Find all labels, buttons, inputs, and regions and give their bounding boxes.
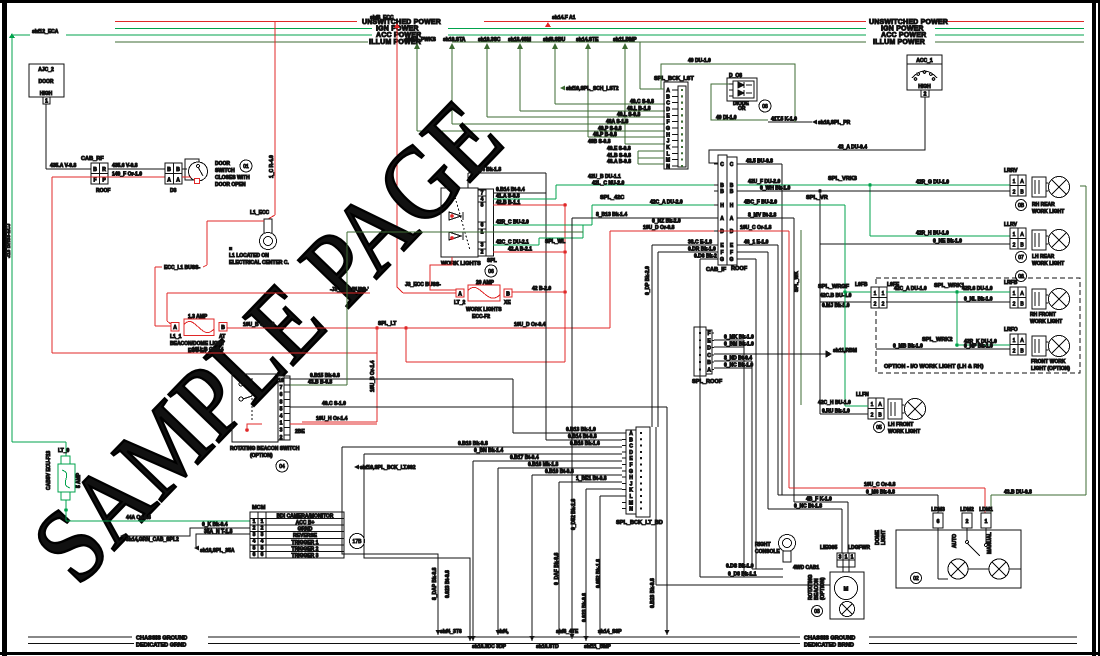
svg-text:F: F xyxy=(707,331,710,337)
svg-text:6: 6 xyxy=(253,552,256,558)
wire 0_K Bk-0.4 xyxy=(125,528,250,536)
svg-text:shf11_BMP: shf11_BMP xyxy=(584,644,611,650)
svg-text:49 DU-1.0: 49 DU-1.0 xyxy=(688,58,711,64)
svg-text:MANUAL: MANUAL xyxy=(987,532,993,554)
wire pin G right xyxy=(737,258,756,260)
svg-text:0.B17 Bt-0.4: 0.B17 Bt-0.4 xyxy=(510,455,539,461)
wire sh11,RBM xyxy=(714,353,826,355)
svg-text:B: B xyxy=(707,360,711,366)
wire 0_NL Bk-1.0 xyxy=(886,301,1010,303)
svg-text:5: 5 xyxy=(280,406,283,412)
wire pin4 41.A S-0.8 (green) xyxy=(493,198,556,200)
ground arrow x=586 xyxy=(584,636,589,641)
node shf8_ECC xyxy=(370,15,400,28)
svg-text:C: C xyxy=(730,162,734,168)
fuse LT_0 CAB5V 5 AMP (green) xyxy=(12,442,82,521)
svg-text:0_NP Bk-1.0: 0_NP Bk-1.0 xyxy=(964,344,993,350)
svg-text:RH FRONT: RH FRONT xyxy=(1030,312,1056,318)
svg-text:48A S-1.8: 48A S-1.8 xyxy=(606,119,629,125)
svg-text:4BC_F BU-2.0: 4BC_F BU-2.0 xyxy=(744,200,777,206)
svg-text:435.A V-0.8: 435.A V-0.8 xyxy=(50,163,76,169)
wire 42R_K DU-1.0 (green) xyxy=(957,344,1010,346)
svg-text:0_WH Bk-1.0: 0_WH Bk-1.0 xyxy=(760,186,791,192)
svg-text:08: 08 xyxy=(762,104,768,110)
svg-text:4: 4 xyxy=(253,539,256,545)
svg-text:shf12_ECA: shf12_ECA xyxy=(32,29,59,35)
wire green SPL_42C to CAB_IF xyxy=(556,184,718,186)
svg-text:C: C xyxy=(666,101,670,107)
terminal RIGHT CONSOLE 4WD CAB1 xyxy=(755,535,819,572)
svg-text:N: N xyxy=(629,507,633,513)
wire long vertical 0_D52 xyxy=(571,218,573,639)
svg-text:TRIGGER 2: TRIGGER 2 xyxy=(292,546,319,552)
wire pin2 42.A B-2.1 (red) xyxy=(493,251,565,253)
wire 0.B15 Bk-0.8 xyxy=(290,378,513,380)
svg-text:CHASSIS GROUND: CHASSIS GROUND xyxy=(136,636,187,642)
svg-text:2: 2 xyxy=(1013,190,1016,196)
svg-text:42R_G DU-1.0: 42R_G DU-1.0 xyxy=(916,180,949,186)
wire 0_NC Bk-1.0 xyxy=(714,367,752,369)
wire 43.5 BU-0.8 xyxy=(737,163,782,165)
svg-text:2: 2 xyxy=(924,92,927,98)
svg-text:shf10,SPL_SCH_LST2: shf10,SPL_SCH_LST2 xyxy=(566,86,619,92)
svg-text:43.B B-0.8: 43.B B-0.8 xyxy=(308,380,332,386)
svg-text:0_D52 Bk-1.8: 0_D52 Bk-1.8 xyxy=(571,499,577,530)
svg-text:0.052 Bk-1.8: 0.052 Bk-1.8 xyxy=(596,559,602,588)
svg-text:1: 1 xyxy=(1013,232,1016,238)
svg-text:H: H xyxy=(629,475,633,481)
svg-text:sh10.STA: sh10.STA xyxy=(443,37,466,43)
svg-text:41T.5 K-1.0: 41T.5 K-1.0 xyxy=(771,117,797,123)
wire 0.B16 Mk-1.8 xyxy=(498,467,622,469)
svg-text:ELECTRICAL CENTER C.: ELECTRICAL CENTER C. xyxy=(229,260,290,266)
svg-text:-J3_ECC BUSS-': -J3_ECC BUSS-' xyxy=(330,287,369,293)
svg-text:42R.6 DU-1.0: 42R.6 DU-1.0 xyxy=(962,286,993,292)
svg-text:2BE: 2BE xyxy=(295,429,305,435)
svg-text:3: 3 xyxy=(481,243,484,249)
svg-text:LIGHT (OPTION): LIGHT (OPTION) xyxy=(1031,366,1070,372)
svg-text:OR: OR xyxy=(738,106,746,112)
svg-text:0_MK Bk-1.0: 0_MK Bk-1.0 xyxy=(724,335,754,341)
svg-text:sh10.3SC: sh10.3SC xyxy=(478,37,501,43)
svg-text:L1_ECC: L1_ECC xyxy=(250,210,270,216)
wire AJC_2 to CAB_RF xyxy=(45,104,47,169)
wire black 8_B13 Bk-1.4 xyxy=(572,217,718,219)
svg-text:G: G xyxy=(629,469,633,475)
svg-text:38.C E-1.8: 38.C E-1.8 xyxy=(688,240,712,246)
svg-text:L0FB: L0FB xyxy=(855,282,868,288)
svg-text:0_MB Bk-1.0: 0_MB Bk-1.0 xyxy=(893,344,923,350)
wire illum drop sh10.STA xyxy=(443,37,665,124)
svg-text:D: D xyxy=(730,229,734,235)
svg-text:06: 06 xyxy=(488,269,494,275)
wire 0_WH Bk-1.0 / SPL_VR xyxy=(737,190,1010,192)
wire illum drop shf8.SBU xyxy=(543,37,665,104)
connector LRFO + lamp FRONT WORK LIGHT (OPTION) xyxy=(1004,327,1070,372)
component WORK LIGHTS xyxy=(441,188,497,277)
svg-text:MCM: MCM xyxy=(252,505,266,511)
wire pin F right xyxy=(737,251,768,253)
wire illum drop sh11.BMP xyxy=(613,37,665,144)
connector L0FB/L0FE xyxy=(855,282,900,308)
svg-text:SPL_BCK_LST: SPL_BCK_LST xyxy=(654,76,694,82)
node shf12_ECA xyxy=(9,29,59,38)
svg-text:2: 2 xyxy=(481,250,484,256)
svg-text:0.D6 Bk-2: 0.D6 Bk-2 xyxy=(694,254,717,260)
svg-text:CAB_IF: CAB_IF xyxy=(706,267,727,273)
svg-text:4: 4 xyxy=(280,414,283,420)
svg-text:42 B-2.0: 42 B-2.0 xyxy=(532,286,551,292)
svg-text:5: 5 xyxy=(261,545,264,551)
wire 0.B13 Bk-1.0 xyxy=(513,432,622,434)
wire pin K xyxy=(586,488,622,490)
svg-text:8_DAP Bk-0.8: 8_DAP Bk-0.8 xyxy=(432,567,438,600)
svg-text:REVERSE: REVERSE xyxy=(293,533,318,539)
svg-text:2: 2 xyxy=(874,302,877,308)
svg-text:48.A B-0.8: 48.A B-0.8 xyxy=(607,159,631,165)
svg-text:L: L xyxy=(629,494,632,500)
wire 49 DU-1.0 (dark green) xyxy=(661,64,795,120)
svg-text:46_1 E-1.0: 46_1 E-1.0 xyxy=(744,240,769,246)
svg-text:AT: AT xyxy=(219,334,225,340)
svg-text:F: F xyxy=(720,250,723,256)
component ACC_1 HIGH xyxy=(907,55,942,98)
ref 01 xyxy=(240,160,252,172)
connector SPL_ROOF xyxy=(692,327,723,385)
svg-text:LDGFWR: LDGFWR xyxy=(848,545,870,551)
svg-text:10U_B Or-1.0: 10U_B Or-1.0 xyxy=(243,322,275,328)
svg-text:5: 5 xyxy=(481,203,484,209)
ground arrow x=559 xyxy=(557,630,562,635)
svg-text:■: ■ xyxy=(229,246,232,252)
connector LLRV + lamp LH REAR WORK LIGHT xyxy=(1004,222,1070,267)
svg-text:FRONT WORK: FRONT WORK xyxy=(1031,359,1066,365)
wire 4B_F K-1.0 xyxy=(794,501,848,503)
svg-text:2: 2 xyxy=(261,526,264,532)
svg-text:B: B xyxy=(93,167,97,173)
wire red to CAB_IF pin D xyxy=(609,231,611,328)
svg-text:1: 1 xyxy=(871,402,874,408)
fuse LT_2 20 AMP WORK LIGHTS ECC-F2 xyxy=(397,280,512,320)
svg-text:LLRV: LLRV xyxy=(1004,222,1018,228)
svg-text:6: 6 xyxy=(280,392,283,398)
svg-text:35A_N T-1.8: 35A_N T-1.8 xyxy=(204,529,233,535)
svg-text:41.A S-0.8: 41.A S-0.8 xyxy=(496,194,520,200)
svg-text:ACC POWER: ACC POWER xyxy=(881,32,926,39)
wire 40.C S-1.0 long xyxy=(290,406,667,408)
svg-text:B: B xyxy=(629,437,633,443)
wire 140_F Or-1.0 (red) xyxy=(52,176,165,178)
svg-text:RIGHT: RIGHT xyxy=(755,542,771,548)
svg-text:AJC_2: AJC_2 xyxy=(38,67,54,73)
wire 0_MK Bk-1.0 xyxy=(714,339,744,341)
wire red 10U_B Or-0.4 xyxy=(52,352,377,354)
ground rail CHASSIS GROUND xyxy=(28,636,1077,638)
svg-text:WORK LIGHT: WORK LIGHT xyxy=(1032,209,1064,215)
svg-text:LRFO: LRFO xyxy=(1004,327,1018,333)
rail labels right xyxy=(869,19,948,46)
svg-text:J: J xyxy=(630,481,633,487)
svg-text:0.B15 Bk-0.8: 0.B15 Bk-0.8 xyxy=(310,373,340,379)
wire illum drop sh10.3SC xyxy=(478,37,665,117)
svg-text:HIGH: HIGH xyxy=(918,84,931,90)
component ROTATING BEACON SWITCH (OPTION) xyxy=(230,374,305,472)
svg-text:ECC-E4: ECC-E4 xyxy=(188,348,207,354)
svg-text:10U_C Or-1.8: 10U_C Or-1.8 xyxy=(740,225,772,231)
svg-text:0_D8 Bk-1.1: 0_D8 Bk-1.1 xyxy=(728,572,757,578)
svg-text:6: 6 xyxy=(261,552,264,558)
svg-text:2: 2 xyxy=(871,413,874,419)
svg-text:A: A xyxy=(167,178,171,184)
svg-text:SPL_WRK1: SPL_WRK1 xyxy=(934,283,964,289)
svg-text:ROOF: ROOF xyxy=(96,188,110,194)
svg-text:A: A xyxy=(720,216,724,222)
wire red bus J3 horizontal xyxy=(167,292,370,294)
svg-text:0_DP Bk-2.0: 0_DP Bk-2.0 xyxy=(645,266,651,295)
wire 42C_A DU-1.0 / 42R.6 DU-1.0 (green) xyxy=(886,291,1010,293)
wire illum drop shf12_PWKS xyxy=(405,37,665,131)
svg-text:3: 3 xyxy=(839,555,842,561)
svg-text:1: 1 xyxy=(845,555,848,561)
wire 0_NP Bk-1.0 / 0_MB Bk-1.0 xyxy=(876,348,1010,350)
svg-text:07: 07 xyxy=(1018,255,1024,261)
wire red to beacon switch xyxy=(302,328,377,422)
svg-text:49.L S-0.8: 49.L S-0.8 xyxy=(617,112,640,118)
svg-text:AUTO: AUTO xyxy=(952,534,958,548)
svg-text:5 AMP: 5 AMP xyxy=(76,472,82,488)
svg-text:49 DI-1.0: 49 DI-1.0 xyxy=(716,115,737,121)
svg-text:10U_H Or-1.4: 10U_H Or-1.4 xyxy=(316,416,348,422)
wire pin7 0_B14 Bt-0.4 xyxy=(493,192,546,194)
svg-text:LT_0: LT_0 xyxy=(58,448,70,454)
wire pin L xyxy=(600,495,622,497)
svg-text:SPL_WL: SPL_WL xyxy=(545,239,565,245)
svg-text:A: A xyxy=(458,292,462,298)
svg-text:8_ND Bt-0.4: 8_ND Bt-0.4 xyxy=(724,356,752,362)
svg-text:BDI CAMERA/MONITOR: BDI CAMERA/MONITOR xyxy=(277,514,334,520)
svg-text:HIGH: HIGH xyxy=(40,91,53,97)
svg-text:42C.B BU-1.0: 42C.B BU-1.0 xyxy=(820,293,852,299)
svg-text:(OPTION): (OPTION) xyxy=(250,453,273,459)
svg-text:06: 06 xyxy=(1018,274,1024,280)
component DOME LIGHT xyxy=(875,507,1021,588)
svg-text:10U_D Or-0.4: 10U_D Or-0.4 xyxy=(514,322,546,328)
svg-text:0.023 Bt-0.8: 0.023 Bt-0.8 xyxy=(445,570,451,598)
svg-text:42C_C DU-2.1: 42C_C DU-2.1 xyxy=(496,240,529,246)
svg-text:TRIGGER 3: TRIGGER 3 xyxy=(292,553,319,559)
svg-text:43_A DU-0.4: 43_A DU-0.4 xyxy=(838,145,867,151)
svg-text:17B: 17B xyxy=(353,539,363,545)
component ROTATING BEACON (OPTION) xyxy=(808,567,864,619)
svg-text:WORK LIGHT: WORK LIGHT xyxy=(888,429,920,435)
svg-text:M: M xyxy=(666,158,670,164)
svg-text:shf8_ECC: shf8_ECC xyxy=(370,15,394,21)
svg-text:DEDICATED GRND: DEDICATED GRND xyxy=(136,643,186,649)
svg-text:H: H xyxy=(720,203,724,209)
connector D3 xyxy=(165,163,182,194)
svg-text:0.B18 Bk-0.8: 0.B18 Bk-0.8 xyxy=(458,441,488,447)
svg-text:B: B xyxy=(730,189,734,195)
svg-text:42L_C NU-2.0: 42L_C NU-2.0 xyxy=(592,181,624,187)
svg-text:02: 02 xyxy=(913,576,919,582)
wire 44A Or-0.8 (green) xyxy=(66,520,250,522)
svg-text:SPL_LT: SPL_LT xyxy=(378,321,396,327)
svg-text:1: 1 xyxy=(253,519,256,525)
svg-text:0_B14 Bk-1.8: 0_B14 Bk-1.8 xyxy=(470,167,501,173)
svg-text:sh16,SPL_PR: sh16,SPL_PR xyxy=(818,120,851,126)
node shf10,SPL_BCK_LT_602 xyxy=(354,465,359,470)
svg-text:WORK LIGHTS: WORK LIGHTS xyxy=(441,261,481,267)
svg-text:shf4,: shf4, xyxy=(497,629,509,635)
svg-text:LIGHT: LIGHT xyxy=(881,530,887,545)
svg-text:8_B13 Bk-1.4: 8_B13 Bk-1.4 xyxy=(596,212,627,218)
wire 0_BM Bk-1.0 xyxy=(714,346,744,348)
svg-text:(OPTION): (OPTION) xyxy=(820,577,826,600)
svg-text:4B_F K-1.0: 4B_F K-1.0 xyxy=(806,497,832,503)
wire red beacon pin2 xyxy=(290,423,377,425)
svg-text:J: J xyxy=(667,139,670,145)
svg-text:WORK LIGHT: WORK LIGHT xyxy=(1030,319,1062,325)
wire 1_C R-4.0 (red riser) xyxy=(274,22,276,216)
svg-text:0_NL Bk-1.0: 0_NL Bk-1.0 xyxy=(964,297,993,303)
svg-text:1: 1 xyxy=(851,555,854,561)
connector CAB_IF ROOF xyxy=(706,155,748,273)
svg-text:05: 05 xyxy=(876,425,882,431)
component DIODE OR D_O8 xyxy=(727,73,771,112)
svg-text:1: 1 xyxy=(882,291,885,297)
wire 42U_F DU-2.0 / 42R_G DU-1.0 (green) xyxy=(737,184,1010,186)
svg-text:19U_D Or-0.8: 19U_D Or-0.8 xyxy=(643,225,675,231)
svg-text:CHASSIS GROUND: CHASSIS GROUND xyxy=(804,636,855,642)
power rail IGN POWER (green) xyxy=(115,28,1084,30)
svg-text:2: 2 xyxy=(1013,349,1016,355)
svg-text:C: C xyxy=(720,162,724,168)
wire 0.DS Bk-1.0 xyxy=(756,568,783,570)
wire right side riser xyxy=(655,427,657,585)
svg-text:F: F xyxy=(730,250,733,256)
svg-text:1: 1 xyxy=(1013,291,1016,297)
svg-text:WORK LIGHTS: WORK LIGHTS xyxy=(466,307,502,313)
wire red splice SPL_LT branch xyxy=(406,292,565,362)
wire 0_M6 Bk-0.8 xyxy=(778,494,938,496)
svg-text:K: K xyxy=(666,145,670,151)
svg-text:2: 2 xyxy=(882,302,885,308)
svg-text:01: 01 xyxy=(243,164,249,170)
svg-text:sh16.STD: sh16.STD xyxy=(536,644,559,650)
wire red left riser xyxy=(51,177,53,353)
svg-text:10U_B Or-1.4: 10U_B Or-1.4 xyxy=(370,360,376,392)
wire pin6 42R_C BU-2.0 (green) xyxy=(493,224,583,226)
svg-text:7: 7 xyxy=(280,385,283,391)
svg-text:0B: 0B xyxy=(1018,203,1025,209)
svg-text:42U_B DU-1.1: 42U_B DU-1.1 xyxy=(588,174,621,180)
ground arrow x=532 xyxy=(530,636,535,641)
svg-text:LRFB: LRFB xyxy=(1004,280,1018,286)
svg-text:6: 6 xyxy=(937,519,940,525)
svg-text:SPL_VRK3: SPL_VRK3 xyxy=(828,176,857,182)
wire 35A_N T-1.8 xyxy=(196,534,250,548)
wire 42C_H BU-1.0 (green) xyxy=(845,405,868,407)
svg-text:0_NC Bt-1.8: 0_NC Bt-1.8 xyxy=(794,504,822,510)
svg-text:sh14.F A1: sh14.F A1 xyxy=(552,15,576,21)
svg-text:0.B16 Bk-1.6: 0.B16 Bk-1.6 xyxy=(570,441,600,447)
ground arrow x=498 xyxy=(496,630,501,635)
svg-text:2: 2 xyxy=(280,435,283,441)
node sh14_F A1 xyxy=(545,15,576,27)
svg-text:42.A B-2.1: 42.A B-2.1 xyxy=(508,247,532,253)
svg-text:B: B xyxy=(666,94,670,100)
wire green 42C_A DU-2.0 xyxy=(592,204,718,206)
wire 49 DI-1.0 (dark green) xyxy=(711,84,768,120)
svg-text:44A Or-0.8: 44A Or-0.8 xyxy=(126,515,151,521)
svg-text:L1 LOCATED ON: L1 LOCATED ON xyxy=(229,253,269,259)
wire 43.B B-0.8 (dark green) xyxy=(290,384,347,386)
svg-text:ROOF: ROOF xyxy=(731,266,748,272)
svg-text:1: 1 xyxy=(280,421,283,427)
svg-text:DOOR OPEN: DOOR OPEN xyxy=(215,182,246,188)
connector MCM BDI CAMERA/MONITOR xyxy=(250,505,365,559)
svg-text:3: 3 xyxy=(280,428,283,434)
svg-text:0_BM Bk-1.0: 0_BM Bk-1.0 xyxy=(724,342,754,348)
svg-text:0.023 Bk-0.8: 0.023 Bk-0.8 xyxy=(582,593,588,622)
wire pin3 42C_C DU-2.1 (green) xyxy=(493,244,539,246)
svg-text:A: A xyxy=(173,325,177,331)
svg-text:B: B xyxy=(221,325,225,331)
svg-text:LH FRONT: LH FRONT xyxy=(888,422,913,428)
svg-text:2: 2 xyxy=(1013,302,1016,308)
wire 41T.5 K-1.0 to sh16,SPL_PR xyxy=(768,121,812,123)
svg-text:0_NC Bk-1.0: 0_NC Bk-1.0 xyxy=(724,363,753,369)
wire 0_D8 Bk-1.1 xyxy=(700,576,783,578)
svg-text:8: 8 xyxy=(280,399,283,405)
svg-text:D3: D3 xyxy=(170,188,177,194)
svg-text:LDM2: LDM2 xyxy=(960,507,974,513)
ground labels xyxy=(136,636,855,649)
svg-text:J3_ECC BUSS-: J3_ECC BUSS- xyxy=(405,282,441,288)
svg-text:48.P B-0.8: 48.P B-0.8 xyxy=(593,132,617,138)
ground arrow x=600 xyxy=(598,630,603,635)
fuse LT_1 1.3 AMP BEACON/DOME LIGHT xyxy=(155,314,227,354)
svg-text:A: A xyxy=(707,368,711,374)
svg-text:H: H xyxy=(730,203,734,209)
svg-text:B: B xyxy=(720,189,724,195)
svg-text:6: 6 xyxy=(481,223,484,229)
wire 0_B14 Bk-1.8 top xyxy=(468,172,546,174)
svg-text:435.6 V-0.8: 435.6 V-0.8 xyxy=(112,163,138,169)
svg-text:0.DS Bk-1.0: 0.DS Bk-1.0 xyxy=(726,564,754,570)
svg-text:ACC B+: ACC B+ xyxy=(296,520,315,526)
wire red feed shf8_ECC vertical xyxy=(396,24,398,287)
svg-text:0_BN Bk-1.4: 0_BN Bk-1.4 xyxy=(474,448,503,454)
svg-text:DOOR: DOOR xyxy=(39,79,54,85)
svg-text:SPL_42C: SPL_42C xyxy=(600,195,624,201)
svg-text:1: 1 xyxy=(985,519,988,525)
svg-text:3: 3 xyxy=(253,532,256,538)
svg-text:sh14_S8P: sh14_S8P xyxy=(598,629,622,635)
svg-text:LRRV: LRRV xyxy=(1004,168,1018,174)
svg-text:4: 4 xyxy=(261,539,264,545)
wire green left bus vertical xyxy=(11,35,13,442)
svg-text:A: A xyxy=(730,216,734,222)
wire illum drop sh14.STE xyxy=(576,37,665,137)
svg-text:42C_A DU-2.0: 42C_A DU-2.0 xyxy=(650,200,683,206)
wire ECC_L1 BUSS (red) xyxy=(155,221,264,326)
connector SPL_BCK_LST xyxy=(654,76,694,170)
svg-text:0_DAF Bk-0.8: 0_DAF Bk-0.8 xyxy=(554,553,560,585)
svg-text:SPL: SPL xyxy=(487,258,497,264)
wire 0.B10 Bt-0.8 xyxy=(532,474,622,476)
svg-text:1_BE1 Bt-0.8: 1_BE1 Bt-0.8 xyxy=(576,476,607,482)
